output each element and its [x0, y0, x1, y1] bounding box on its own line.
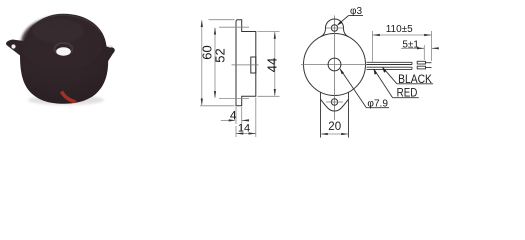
- upper wire (black): [367, 62, 413, 64]
- dimension 14: [236, 98, 256, 138]
- dimension 44: [258, 32, 280, 97]
- svg-text:φ3: φ3: [350, 6, 362, 17]
- dimension 20: [321, 133, 349, 135]
- label phi3 with leader: [338, 16, 363, 25]
- red wire: [60, 91, 76, 104]
- side view drawing: [236, 20, 256, 106]
- dimension 110±5: [373, 31, 432, 62]
- svg-text:RED: RED: [397, 88, 418, 100]
- upper terminal pin: [417, 61, 431, 64]
- lower wire (red): [367, 67, 413, 69]
- wire exit box on back: [251, 57, 256, 73]
- top ear hole: [331, 25, 337, 31]
- svg-text:14: 14: [238, 123, 250, 135]
- svg-text:20: 20: [328, 121, 341, 133]
- top ear lobe: [321, 19, 349, 37]
- horizontal centerline: [301, 64, 372, 66]
- dimension 52: [215, 27, 249, 98]
- photo shadow: [28, 95, 104, 105]
- label RED with leader: [374, 69, 419, 97]
- main circle: [304, 34, 366, 96]
- side view body outline: [236, 20, 256, 106]
- dimension 4: [221, 107, 248, 131]
- vertical centerline: [334, 16, 336, 121]
- photo: piezo buzzer product photo: [6, 14, 115, 105]
- svg-text:44: 44: [265, 58, 280, 72]
- label BLACK with leader: [383, 68, 433, 84]
- bottom ear hole: [331, 99, 337, 105]
- left ear hole: [11, 44, 15, 48]
- dimension 5±1: [401, 45, 439, 60]
- bottom ear sides / 20 extension lines: [320, 92, 322, 138]
- right ear hole: [108, 45, 113, 47]
- center hole: [56, 47, 71, 55]
- svg-text:φ7.9: φ7.9: [367, 99, 388, 110]
- svg-text:110±5: 110±5: [386, 24, 413, 35]
- lower terminal pin: [417, 66, 431, 69]
- label phi7.9 with leader: [340, 69, 389, 108]
- dome rim light: [30, 15, 100, 32]
- side view centerline: [232, 64, 259, 66]
- svg-text:5±1: 5±1: [402, 39, 419, 50]
- center hole: [328, 58, 341, 71]
- svg-text:4: 4: [230, 109, 237, 123]
- svg-text:BLACK: BLACK: [398, 74, 432, 86]
- center hole rim ring: [55, 43, 73, 55]
- buzzer body silhouette: [6, 14, 115, 104]
- dimension 60: [200, 20, 235, 106]
- bottom ear lobe: [321, 99, 349, 111]
- svg-text:52: 52: [213, 48, 228, 62]
- buzzer dome shading: [21, 16, 103, 70]
